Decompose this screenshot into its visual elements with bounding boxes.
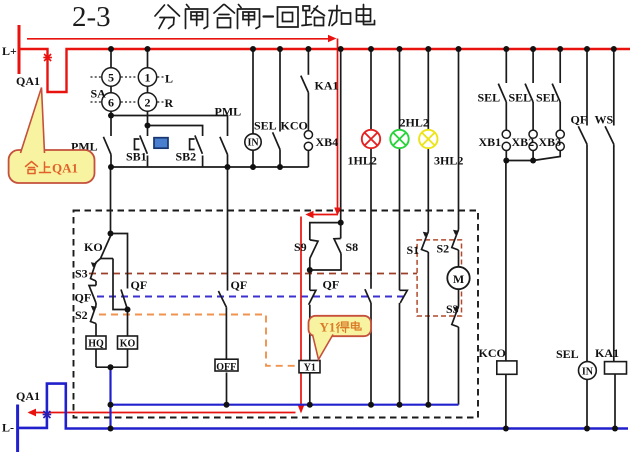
svg-text:2HL2: 2HL2: [400, 116, 429, 130]
wire red trace bottom return: [29, 412, 296, 414]
callout balloon: Y1 energized: [309, 316, 372, 360]
contact S3 travel: [452, 307, 459, 328]
svg-text:L+: L+: [2, 44, 17, 58]
pushbutton SB1: [140, 135, 148, 153]
svg-text:S3: S3: [75, 267, 88, 281]
arrowhead down at Y1: [298, 405, 305, 414]
wire QF IN column: [586, 49, 588, 126]
wire mid branch KO seal-in: [113, 259, 128, 310]
coil Y1: [299, 361, 320, 373]
svg-text:KO: KO: [120, 339, 136, 350]
callout balloon: close QA1: [9, 88, 95, 184]
svg-text:QF: QF: [571, 113, 588, 127]
contact QF on 1HL2 column: [365, 289, 371, 303]
contact PML right: [220, 137, 228, 155]
contact KA1: [301, 76, 309, 93]
svg-text:2-3: 2-3: [72, 1, 111, 33]
arrowhead down at box entry: [334, 208, 341, 216]
svg-text:5: 5: [108, 70, 114, 84]
svg-text:S1: S1: [407, 243, 420, 257]
connector XB4: [304, 131, 312, 151]
char zha: [186, 5, 208, 29]
wire S8 branch: [340, 223, 342, 239]
arrowhead left toward S9: [305, 211, 313, 218]
wire S9 branch: [310, 223, 341, 240]
anti-pump module (blue block): [154, 138, 168, 149]
coil KA1: [605, 362, 627, 374]
wire red trace to S9-S8 feeder (top): [27, 38, 329, 40]
lamp 3HL2 (yellow): [419, 130, 437, 148]
svg-text:Y1: Y1: [320, 320, 336, 335]
coil KCO: [497, 361, 517, 374]
contact QF on OFF column: [218, 291, 226, 307]
svg-text:S9: S9: [294, 240, 307, 254]
svg-text:KA1: KA1: [595, 346, 619, 360]
svg-text:WS: WS: [595, 113, 614, 127]
svg-text:OFF: OFF: [216, 362, 236, 373]
wire SEL contact column: [279, 49, 281, 132]
svg-text:SEL: SEL: [536, 91, 559, 105]
wire OFF column: [227, 167, 229, 291]
contact SEL 2: [525, 84, 533, 102]
lamp 1HL2 (red): [362, 130, 380, 148]
svg-text:L: L: [165, 72, 173, 86]
connector XB3: [556, 130, 564, 150]
svg-text:3HL2: 3HL2: [434, 154, 463, 168]
contact QF on 2HL2 column: [400, 290, 408, 303]
wire KA1 contact column: [307, 49, 309, 75]
wire red trace into box toward S9: [311, 214, 338, 216]
svg-text:KO: KO: [84, 240, 103, 254]
contact KO: [101, 236, 111, 259]
svg-text:QF: QF: [75, 291, 92, 305]
svg-text:SEL: SEL: [254, 119, 277, 133]
wire PML right bottom: [227, 155, 229, 168]
wire 1HL2 lamp column: [370, 49, 372, 130]
wire SEL XB1 column: [505, 49, 507, 83]
wire SEL XB3 column: [559, 49, 561, 83]
svg-text:KA1: KA1: [315, 79, 339, 93]
svg-text:XB4: XB4: [316, 135, 339, 149]
svg-text:SB1: SB1: [126, 150, 147, 164]
breaker mark X on QA1 (top): [43, 54, 52, 61]
char dian: [357, 5, 375, 25]
dashed box S1 S2 M S3 travel-switch group: [417, 240, 461, 316]
connector XB2: [529, 130, 537, 150]
wire bottom rail of pushbutton group: [111, 166, 308, 168]
arrow tips on operated contacts: [91, 230, 459, 312]
wire SB1 bottom: [147, 156, 149, 168]
contact SEL 1: [498, 84, 506, 102]
svg-text:S2: S2: [75, 308, 88, 322]
contact QF beside KO: [121, 290, 128, 310]
contact WS: [605, 126, 614, 144]
svg-text:QF: QF: [131, 278, 148, 292]
wire red trace down feeder column: [337, 39, 339, 209]
dashed link QF (blue): [97, 296, 406, 298]
contact S3 chain: [91, 262, 97, 281]
wire node2 to SB2 top: [148, 126, 203, 137]
lamp 2HL2 (green): [390, 130, 408, 148]
wire Y1 column QF to Y1 coil: [309, 270, 311, 290]
svg-text:SB2: SB2: [176, 150, 197, 164]
dashed link S2 to Y1 (orange): [99, 315, 299, 366]
svg-text:KCO: KCO: [479, 346, 506, 360]
wire SA column 1-2 taps: [147, 49, 149, 68]
wire HQ coil bottom: [95, 349, 97, 367]
indicator IN (right, SEL): [579, 362, 597, 380]
contact S9: [310, 240, 318, 259]
contact S2 chain: [91, 306, 97, 324]
wire node6 down to PML left: [110, 116, 112, 137]
wire SEL XB2 column: [532, 49, 534, 83]
coil HQ: [86, 336, 106, 349]
svg-text:1HL2: 1HL2: [348, 154, 377, 168]
wire KCO coil column: [505, 161, 507, 361]
svg-text:KCO: KCO: [281, 119, 308, 133]
arrowhead left at bottom return: [28, 409, 37, 417]
hyphen: [264, 15, 274, 17]
wire KO parallel branch: [111, 234, 128, 289]
svg-text:S3: S3: [446, 302, 459, 316]
contact SEL (middle group): [273, 132, 280, 149]
svg-text:QF: QF: [323, 278, 340, 292]
wire red trace down beside Y1 column: [300, 217, 302, 407]
svg-text:S8: S8: [346, 240, 359, 254]
wire SA column 5-6 taps: [110, 49, 112, 68]
svg-text:SA: SA: [91, 87, 107, 101]
svg-text:XB2: XB2: [512, 135, 535, 149]
title: 2-3 opening-closing circuit energizing: [72, 1, 375, 33]
breaker mark X on QA1 (bottom): [43, 411, 52, 418]
svg-text:M: M: [453, 272, 464, 286]
wire PML left bottom: [110, 155, 112, 168]
wire S2 M S3 column: [458, 49, 460, 230]
L- terminal bar: [16, 405, 19, 453]
char fen: [155, 5, 180, 29]
wire node6 to PML right top: [111, 116, 228, 137]
contact QF right: [578, 126, 587, 144]
svg-text:R: R: [165, 96, 174, 110]
svg-text:SEL: SEL: [478, 91, 501, 105]
svg-text:1: 1: [145, 70, 151, 84]
L+ terminal bar: [18, 25, 21, 74]
wire QF to KO coil: [127, 310, 129, 337]
selector switch SA contact circles 5 1 6 2: [102, 68, 157, 111]
svg-text:S2: S2: [437, 242, 450, 256]
char jia: [329, 6, 351, 26]
svg-text:QA1: QA1: [52, 161, 78, 176]
svg-text:IN: IN: [582, 366, 594, 377]
contact PML left: [103, 137, 111, 155]
char he: [214, 5, 235, 28]
svg-text:Y1: Y1: [304, 363, 316, 374]
svg-text:QA1: QA1: [16, 389, 40, 403]
pushbutton SB2: [195, 135, 203, 153]
wire KO chain top: [110, 167, 112, 234]
contact S2 travel: [452, 230, 459, 251]
wire node2 down to SB1 top: [147, 126, 149, 137]
svg-text:PML: PML: [215, 105, 242, 119]
contact QF chain: [89, 286, 96, 304]
wire HQ-KO bottom tie: [96, 366, 128, 368]
svg-text:HQ: HQ: [88, 339, 104, 350]
wire 2HL2 lamp column: [399, 49, 401, 130]
dashed link S3 (brown): [89, 273, 417, 275]
indicator IN (middle group): [245, 134, 261, 150]
wire WS KA1 column: [613, 49, 615, 126]
dotted linkage lines of SA: [91, 77, 164, 102]
arrowhead right at end of top trace: [328, 35, 337, 42]
contact S1: [422, 232, 429, 253]
wire L+ bus with QA1 breaker detour: [19, 49, 630, 92]
svg-text:2: 2: [145, 95, 151, 109]
wire L- bus with QA1 breaker detour and bottom rail: [18, 384, 628, 429]
char lu: [302, 6, 325, 26]
svg-text:QF: QF: [231, 278, 248, 292]
svg-text:SEL: SEL: [509, 91, 532, 105]
wire 3HL2 lamp and S1 column: [427, 49, 429, 130]
contact S8: [334, 239, 341, 254]
wire S3 QF S2 chain: [95, 281, 97, 286]
wire coil return rail (inside box): [111, 404, 459, 406]
wire HQ KO junction down to rails: [109, 367, 111, 428]
char hui: [278, 7, 299, 27]
contact QF on Y1 column: [309, 290, 316, 304]
wire S9 S8 feeder column: [340, 49, 342, 223]
coil OFF: [215, 359, 238, 371]
svg-text:6: 6: [108, 95, 114, 109]
dashed enclosure box (mechanism cabinet): [74, 211, 479, 418]
char zha: [238, 5, 260, 29]
svg-text:IN: IN: [247, 138, 259, 149]
wire IN lamp column: [252, 49, 254, 134]
motor M: [447, 267, 469, 289]
wire KO to S3 junction: [101, 258, 114, 260]
wire SB2 bottom: [202, 156, 204, 168]
wire XB1 XB2 XB3 tie rail: [505, 151, 507, 161]
svg-text:XB3: XB3: [539, 135, 562, 149]
contact SEL 3: [552, 84, 560, 102]
svg-text:L-: L-: [2, 421, 14, 435]
svg-text:QA1: QA1: [16, 74, 40, 88]
wire KO coil bottom: [127, 349, 129, 367]
svg-text:SEL: SEL: [556, 347, 579, 361]
svg-text:XB1: XB1: [479, 135, 502, 149]
coil KO: [118, 336, 138, 349]
connector XB1: [502, 130, 510, 150]
